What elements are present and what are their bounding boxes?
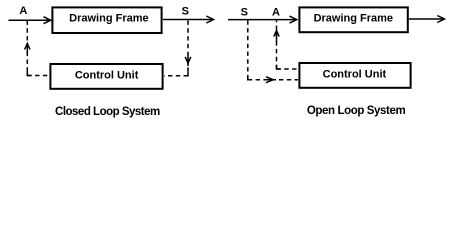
wire: dashed feedback into Control Unit right side (closed loop)	[164, 75, 188, 77]
arrowhead: feedback arrow pointing up into A (closed loop)	[25, 44, 30, 50]
svg-text:Control Unit: Control Unit	[323, 69, 387, 81]
wire: dashed feedback down from S (closed loop)	[187, 21, 189, 76]
wire: dashed from S into Control Unit left side (open loop)	[248, 79, 298, 81]
arrowhead: input into Drawing Frame (open loop)	[290, 16, 297, 23]
wire: output line from Drawing Frame (open loop)	[409, 18, 444, 20]
svg-text:S: S	[182, 5, 189, 17]
svg-text:Closed Loop System: Closed Loop System	[55, 106, 160, 118]
wire: dashed from Control Unit left side toward A (open loop)	[277, 68, 299, 70]
arrowhead: arrow pointing up into A (open loop)	[274, 31, 279, 37]
wire: output line from Drawing Frame (closed loop)	[163, 19, 213, 21]
block: Control Unit (closed loop)	[50, 64, 162, 89]
wire: input line to Drawing Frame (closed loop)	[9, 19, 51, 21]
svg-text:S: S	[241, 6, 248, 18]
svg-text:A: A	[272, 6, 280, 18]
block: Drawing Frame (closed loop)	[52, 7, 161, 33]
wire: dashed feedback up to A (closed loop)	[26, 21, 28, 76]
block: Control Unit (open loop)	[299, 63, 410, 88]
svg-text:Drawing Frame: Drawing Frame	[69, 13, 148, 25]
svg-text:A: A	[19, 5, 27, 17]
svg-text:Open Loop System: Open Loop System	[307, 105, 406, 117]
wire: dashed up to A (open loop)	[276, 21, 278, 70]
arrowhead: input into Drawing Frame (closed loop)	[44, 17, 51, 24]
svg-text:Control Unit: Control Unit	[75, 69, 139, 81]
arrowhead: feedback arrow pointing down (closed loop)	[185, 57, 191, 63]
svg-text:Drawing Frame: Drawing Frame	[314, 12, 393, 24]
wire: input line to Drawing Frame (open loop)	[228, 19, 296, 21]
wire: dashed from Control Unit left side (closed loop)	[27, 75, 49, 77]
wire: dashed from S down (open loop)	[247, 20, 249, 79]
arrowhead: output S (closed loop)	[206, 16, 213, 23]
block: Drawing Frame (open loop)	[299, 7, 407, 32]
arrowhead: output (open loop)	[437, 16, 444, 23]
arrowhead: arrow pointing right into Control Unit (open loop)	[266, 77, 273, 83]
